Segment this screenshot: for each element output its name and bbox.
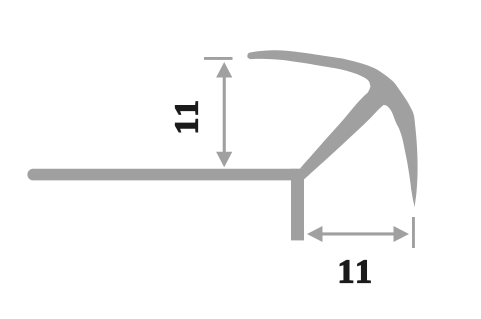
vertical dim arrow — [216, 62, 232, 167]
profile diagonal leg — [300, 78, 396, 180]
svg-text:11: 11 — [337, 254, 374, 291]
profile vertical stem — [291, 169, 304, 241]
profile base bar — [27, 169, 304, 181]
svg-text:11: 11 — [169, 97, 206, 134]
horizontal dim arrow — [307, 226, 409, 242]
profile curved head — [247, 50, 417, 207]
right tick — [412, 217, 415, 248]
top tick — [204, 57, 233, 60]
